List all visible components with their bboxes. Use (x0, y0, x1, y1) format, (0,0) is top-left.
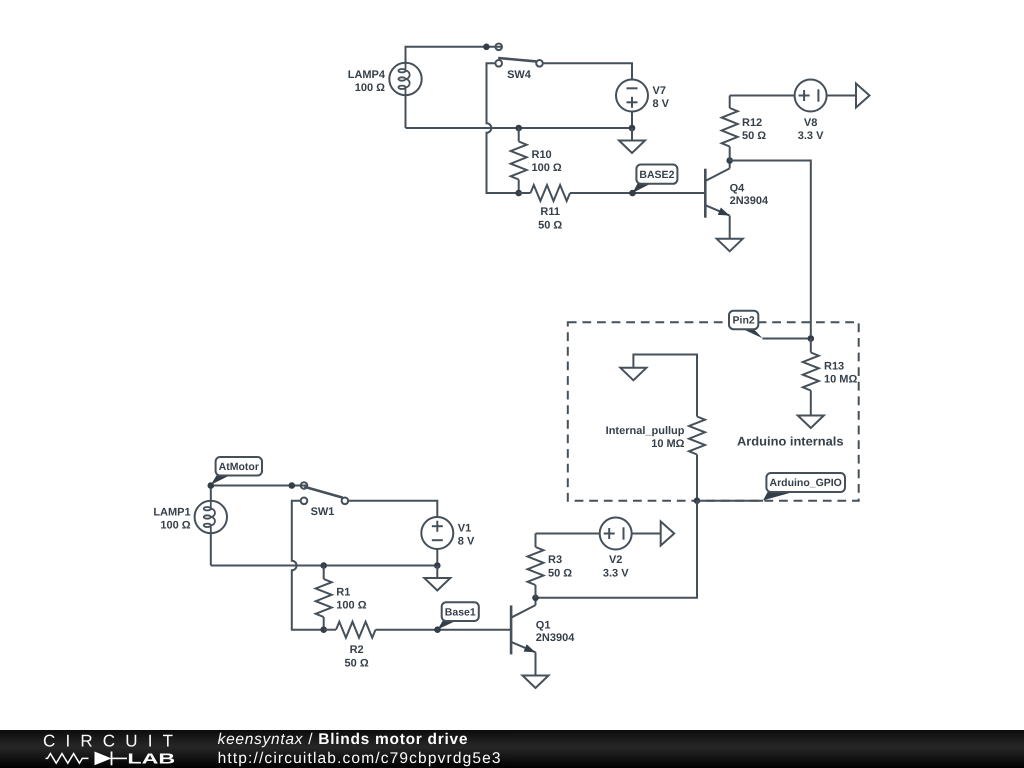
svg-text:R12: R12 (742, 117, 762, 129)
svg-text:R3: R3 (548, 554, 562, 566)
svg-text:BASE2: BASE2 (639, 169, 674, 181)
svg-text:50 Ω: 50 Ω (742, 130, 766, 142)
svg-text:50 Ω: 50 Ω (345, 657, 369, 669)
svg-text:10 MΩ: 10 MΩ (824, 374, 857, 386)
svg-text:LAB: LAB (127, 751, 175, 767)
svg-text:LAMP4: LAMP4 (348, 69, 386, 81)
svg-text:100 Ω: 100 Ω (160, 519, 190, 531)
svg-text:3.3 V: 3.3 V (603, 568, 629, 580)
svg-text:8 V: 8 V (458, 535, 475, 547)
svg-text:8 V: 8 V (653, 98, 670, 110)
svg-text:10 MΩ: 10 MΩ (651, 438, 684, 450)
svg-text:AtMotor: AtMotor (219, 461, 259, 473)
svg-text:LAMP1: LAMP1 (153, 507, 190, 519)
svg-text:100 Ω: 100 Ω (336, 600, 366, 612)
svg-text:R1: R1 (336, 587, 350, 599)
svg-text:R2: R2 (350, 644, 364, 656)
svg-text:R10: R10 (532, 149, 552, 161)
svg-text:Q1: Q1 (536, 620, 551, 632)
svg-text:Internal_pullup: Internal_pullup (606, 425, 685, 437)
svg-text:50 Ω: 50 Ω (538, 220, 562, 232)
svg-text:R13: R13 (824, 361, 844, 373)
svg-text:SW1: SW1 (311, 506, 335, 518)
svg-text:2N3904: 2N3904 (730, 195, 769, 207)
svg-text:V2: V2 (609, 554, 622, 566)
svg-text:50 Ω: 50 Ω (548, 568, 572, 580)
svg-text:2N3904: 2N3904 (536, 632, 575, 644)
svg-text:V1: V1 (458, 523, 471, 535)
svg-text:100 Ω: 100 Ω (532, 162, 562, 174)
svg-text:CIRCUIT: CIRCUIT (43, 732, 173, 751)
svg-text:3.3 V: 3.3 V (798, 130, 824, 142)
svg-text:SW4: SW4 (507, 69, 532, 81)
svg-text:Arduino_GPIO: Arduino_GPIO (770, 477, 842, 489)
svg-text:Pin2: Pin2 (733, 315, 755, 327)
svg-text:Arduino internals: Arduino internals (737, 435, 844, 449)
svg-text:100 Ω: 100 Ω (355, 82, 385, 94)
svg-text:V8: V8 (804, 117, 817, 129)
svg-text:Base1: Base1 (445, 606, 476, 618)
svg-text:R11: R11 (540, 206, 560, 218)
svg-text:Q4: Q4 (730, 182, 746, 194)
svg-text:V7: V7 (653, 85, 666, 97)
